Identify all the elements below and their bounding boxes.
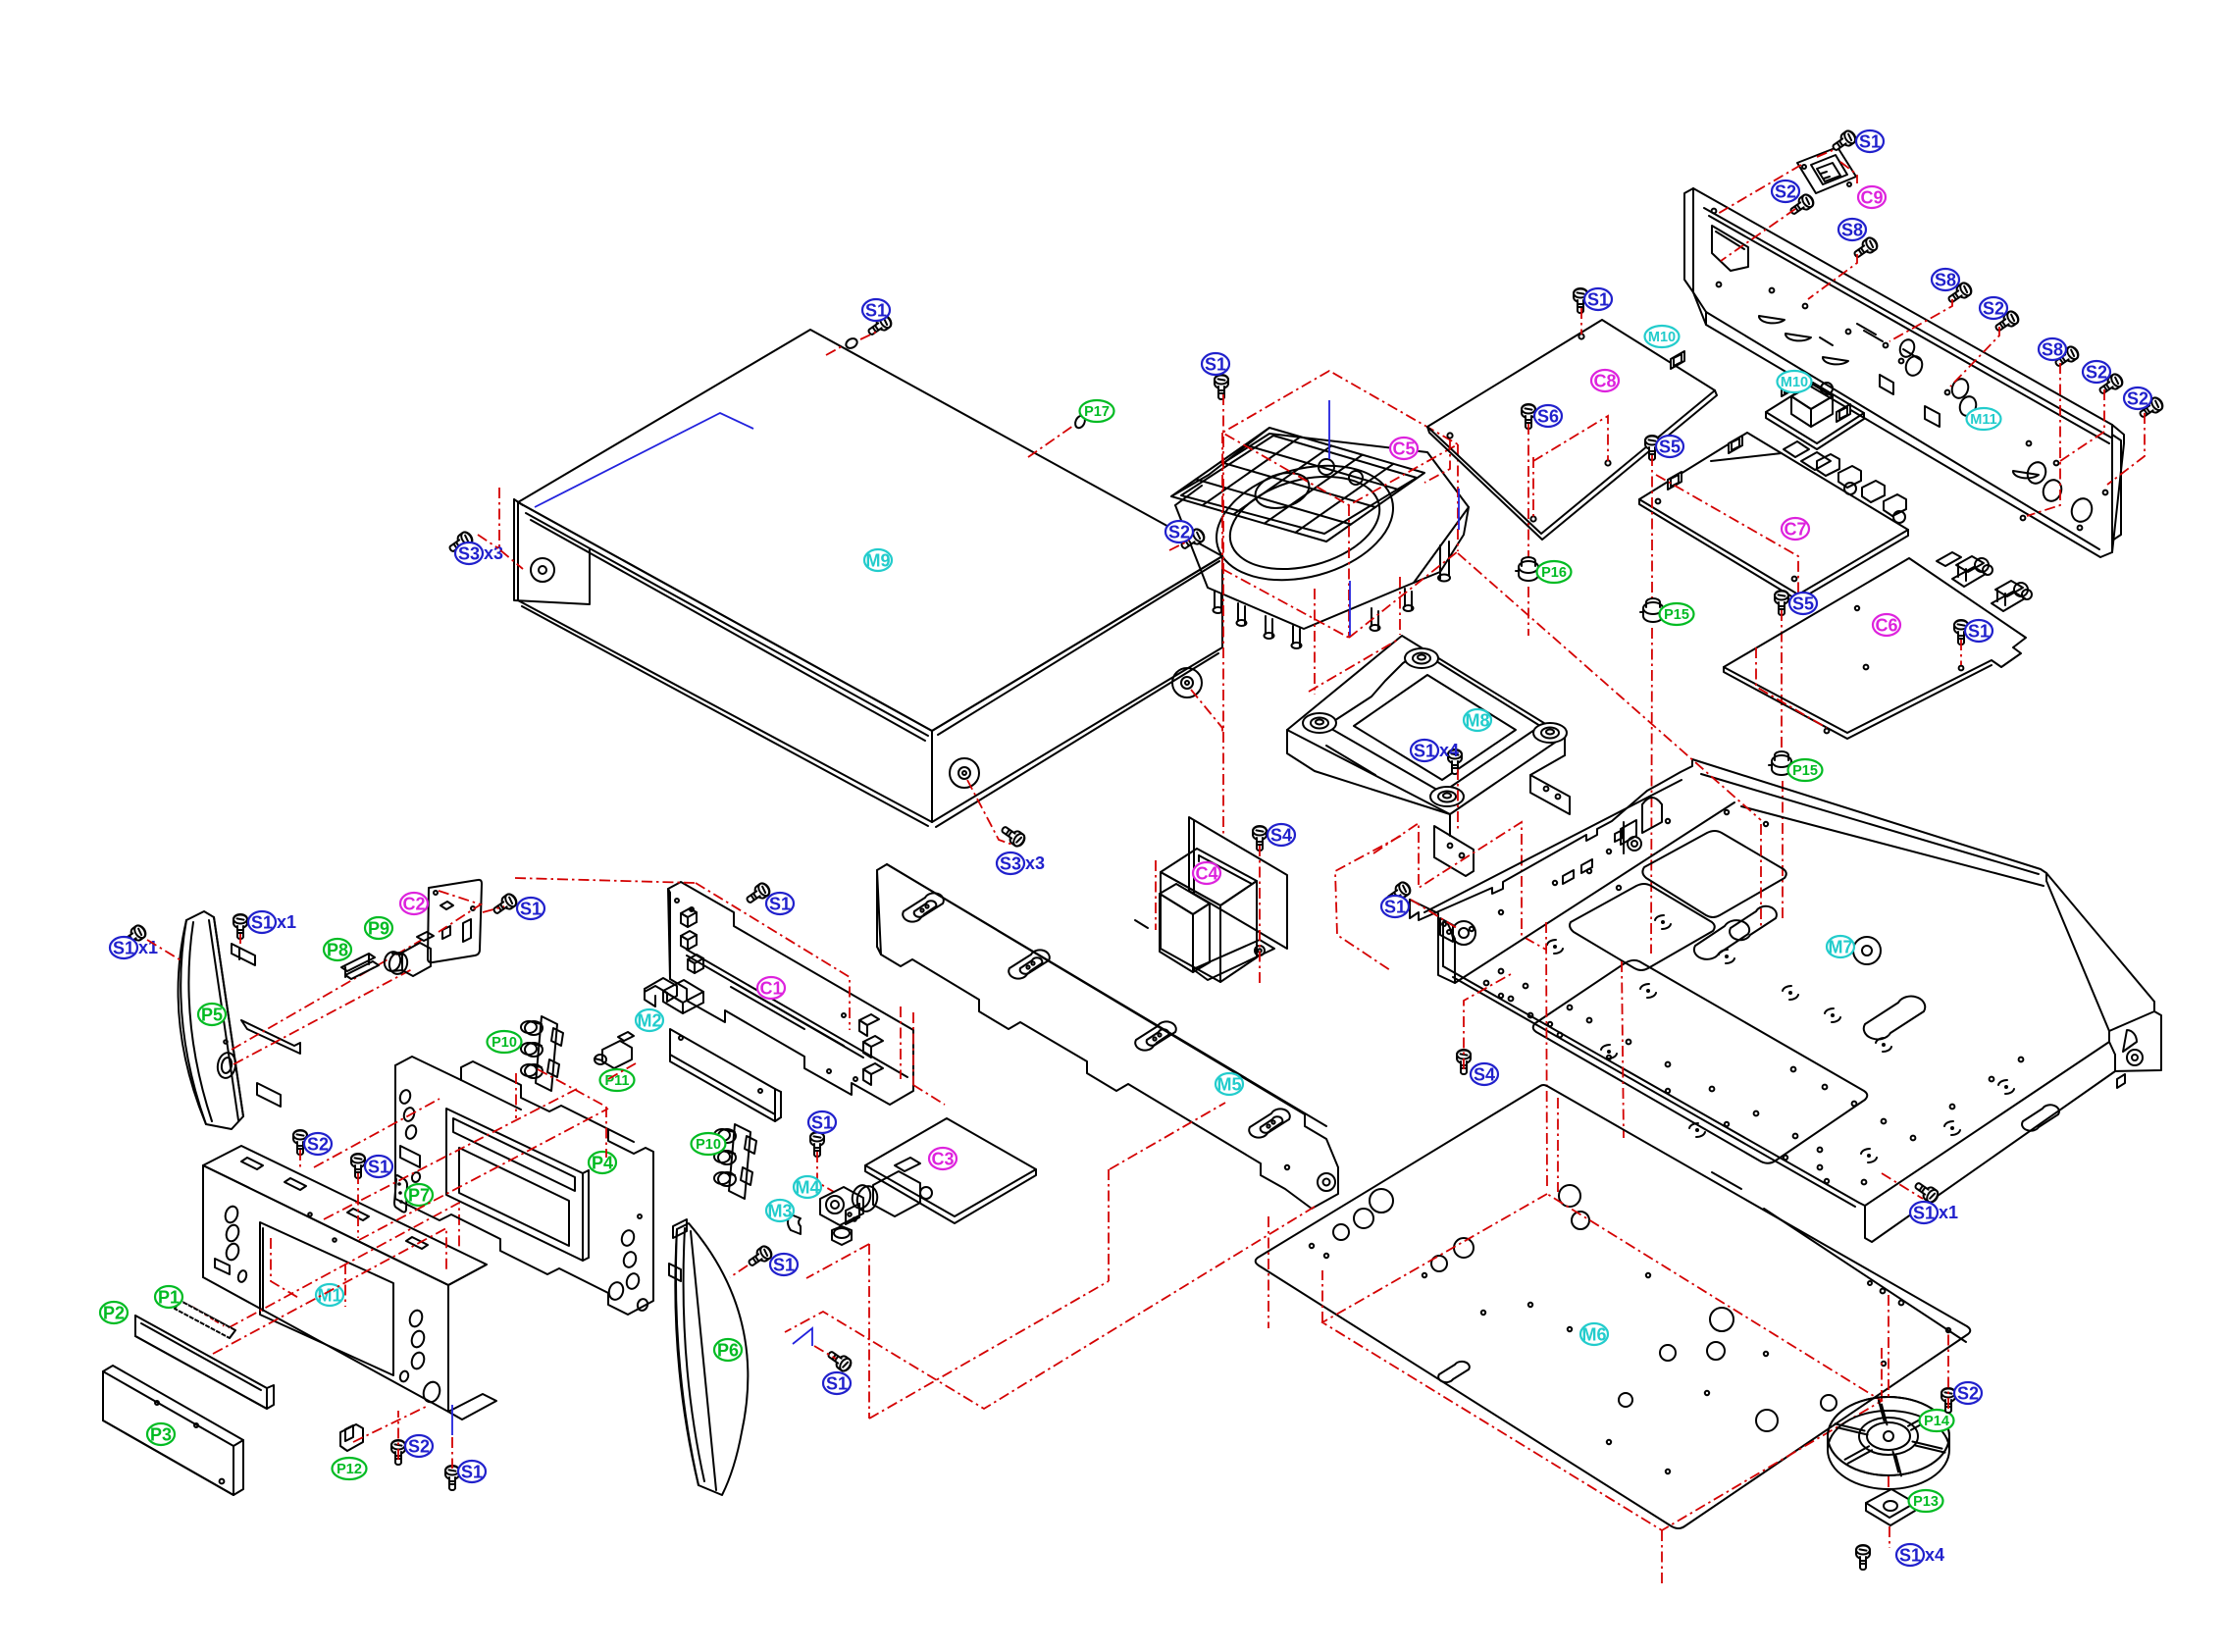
svg-text:S1: S1 bbox=[113, 938, 134, 957]
svg-text:M1: M1 bbox=[317, 1285, 341, 1305]
svg-text:P12: P12 bbox=[336, 1462, 362, 1477]
svg-text:S1: S1 bbox=[1587, 289, 1609, 309]
svg-text:S1: S1 bbox=[1859, 131, 1881, 151]
svg-text:P13: P13 bbox=[1913, 1494, 1939, 1510]
svg-text:P2: P2 bbox=[103, 1303, 125, 1322]
svg-text:x1: x1 bbox=[1939, 1203, 1958, 1222]
svg-text:S2: S2 bbox=[1168, 522, 1190, 542]
svg-text:M11: M11 bbox=[1970, 412, 1996, 428]
svg-text:M6: M6 bbox=[1581, 1324, 1606, 1344]
svg-text:S8: S8 bbox=[2042, 339, 2063, 359]
svg-text:M4: M4 bbox=[795, 1177, 819, 1197]
svg-text:P1: P1 bbox=[158, 1287, 180, 1307]
svg-text:S8: S8 bbox=[1935, 270, 1956, 289]
svg-text:S1: S1 bbox=[1899, 1545, 1921, 1565]
svg-text:S2: S2 bbox=[1983, 298, 2004, 318]
svg-text:M9: M9 bbox=[865, 550, 890, 570]
svg-text:P10: P10 bbox=[492, 1035, 517, 1051]
svg-text:x3: x3 bbox=[1025, 853, 1045, 873]
svg-text:P10: P10 bbox=[696, 1137, 721, 1153]
svg-text:P8: P8 bbox=[327, 940, 348, 959]
svg-text:M8: M8 bbox=[1465, 710, 1489, 730]
svg-text:M10: M10 bbox=[1648, 330, 1676, 345]
svg-text:S3: S3 bbox=[458, 543, 480, 563]
svg-text:P16: P16 bbox=[1541, 565, 1567, 581]
svg-text:S1: S1 bbox=[1384, 897, 1406, 916]
svg-text:P7: P7 bbox=[408, 1185, 430, 1205]
svg-text:x1: x1 bbox=[277, 912, 296, 932]
svg-text:M3: M3 bbox=[767, 1201, 792, 1220]
svg-text:C2: C2 bbox=[402, 894, 425, 913]
svg-text:x4: x4 bbox=[1439, 741, 1459, 760]
svg-text:S1: S1 bbox=[461, 1462, 483, 1481]
svg-text:S1: S1 bbox=[865, 300, 887, 320]
svg-text:C4: C4 bbox=[1195, 863, 1217, 883]
svg-text:S6: S6 bbox=[1537, 406, 1559, 426]
svg-text:P14: P14 bbox=[1924, 1414, 1949, 1429]
svg-text:P5: P5 bbox=[201, 1005, 223, 1024]
svg-text:C7: C7 bbox=[1784, 519, 1806, 539]
svg-text:C9: C9 bbox=[1860, 187, 1883, 207]
svg-text:P4: P4 bbox=[592, 1153, 613, 1172]
svg-text:S1: S1 bbox=[1913, 1203, 1935, 1222]
svg-text:M5: M5 bbox=[1216, 1074, 1241, 1094]
svg-text:S4: S4 bbox=[1270, 825, 1292, 845]
svg-text:P6: P6 bbox=[717, 1340, 739, 1360]
svg-text:P17: P17 bbox=[1084, 404, 1110, 420]
svg-text:C3: C3 bbox=[931, 1149, 954, 1168]
svg-text:P9: P9 bbox=[368, 918, 389, 938]
svg-text:S1: S1 bbox=[811, 1112, 833, 1132]
svg-text:S1: S1 bbox=[1968, 621, 1990, 641]
svg-text:S4: S4 bbox=[1474, 1064, 1495, 1084]
svg-text:S3: S3 bbox=[1000, 853, 1021, 873]
svg-text:S8: S8 bbox=[1841, 220, 1863, 239]
svg-text:M7: M7 bbox=[1828, 937, 1852, 956]
svg-text:S1: S1 bbox=[251, 912, 273, 932]
svg-text:P11: P11 bbox=[605, 1073, 630, 1089]
svg-text:x3: x3 bbox=[484, 543, 503, 563]
svg-text:S2: S2 bbox=[2086, 362, 2107, 382]
svg-text:x4: x4 bbox=[1925, 1545, 1944, 1565]
svg-text:S1: S1 bbox=[1205, 354, 1226, 374]
svg-text:S1: S1 bbox=[826, 1373, 848, 1393]
svg-text:C5: C5 bbox=[1392, 439, 1415, 458]
svg-text:C8: C8 bbox=[1593, 371, 1616, 390]
svg-text:S1: S1 bbox=[368, 1157, 389, 1176]
svg-text:P3: P3 bbox=[150, 1424, 172, 1444]
svg-text:S1: S1 bbox=[1414, 741, 1435, 760]
svg-text:S5: S5 bbox=[1792, 594, 1814, 613]
svg-text:S2: S2 bbox=[307, 1134, 329, 1154]
svg-text:S1: S1 bbox=[769, 894, 791, 913]
svg-text:M2: M2 bbox=[637, 1010, 661, 1030]
svg-text:S1: S1 bbox=[773, 1255, 795, 1274]
svg-text:P15: P15 bbox=[1792, 763, 1818, 779]
svg-text:S1: S1 bbox=[520, 899, 542, 918]
svg-text:S2: S2 bbox=[1775, 181, 1796, 201]
svg-text:C6: C6 bbox=[1875, 615, 1897, 635]
svg-text:P15: P15 bbox=[1664, 607, 1689, 623]
svg-text:S2: S2 bbox=[1957, 1383, 1979, 1403]
svg-text:S2: S2 bbox=[408, 1436, 430, 1456]
svg-text:S2: S2 bbox=[2127, 388, 2148, 408]
svg-text:C1: C1 bbox=[759, 978, 782, 998]
svg-text:M10: M10 bbox=[1781, 375, 1808, 390]
svg-text:S5: S5 bbox=[1659, 437, 1681, 456]
